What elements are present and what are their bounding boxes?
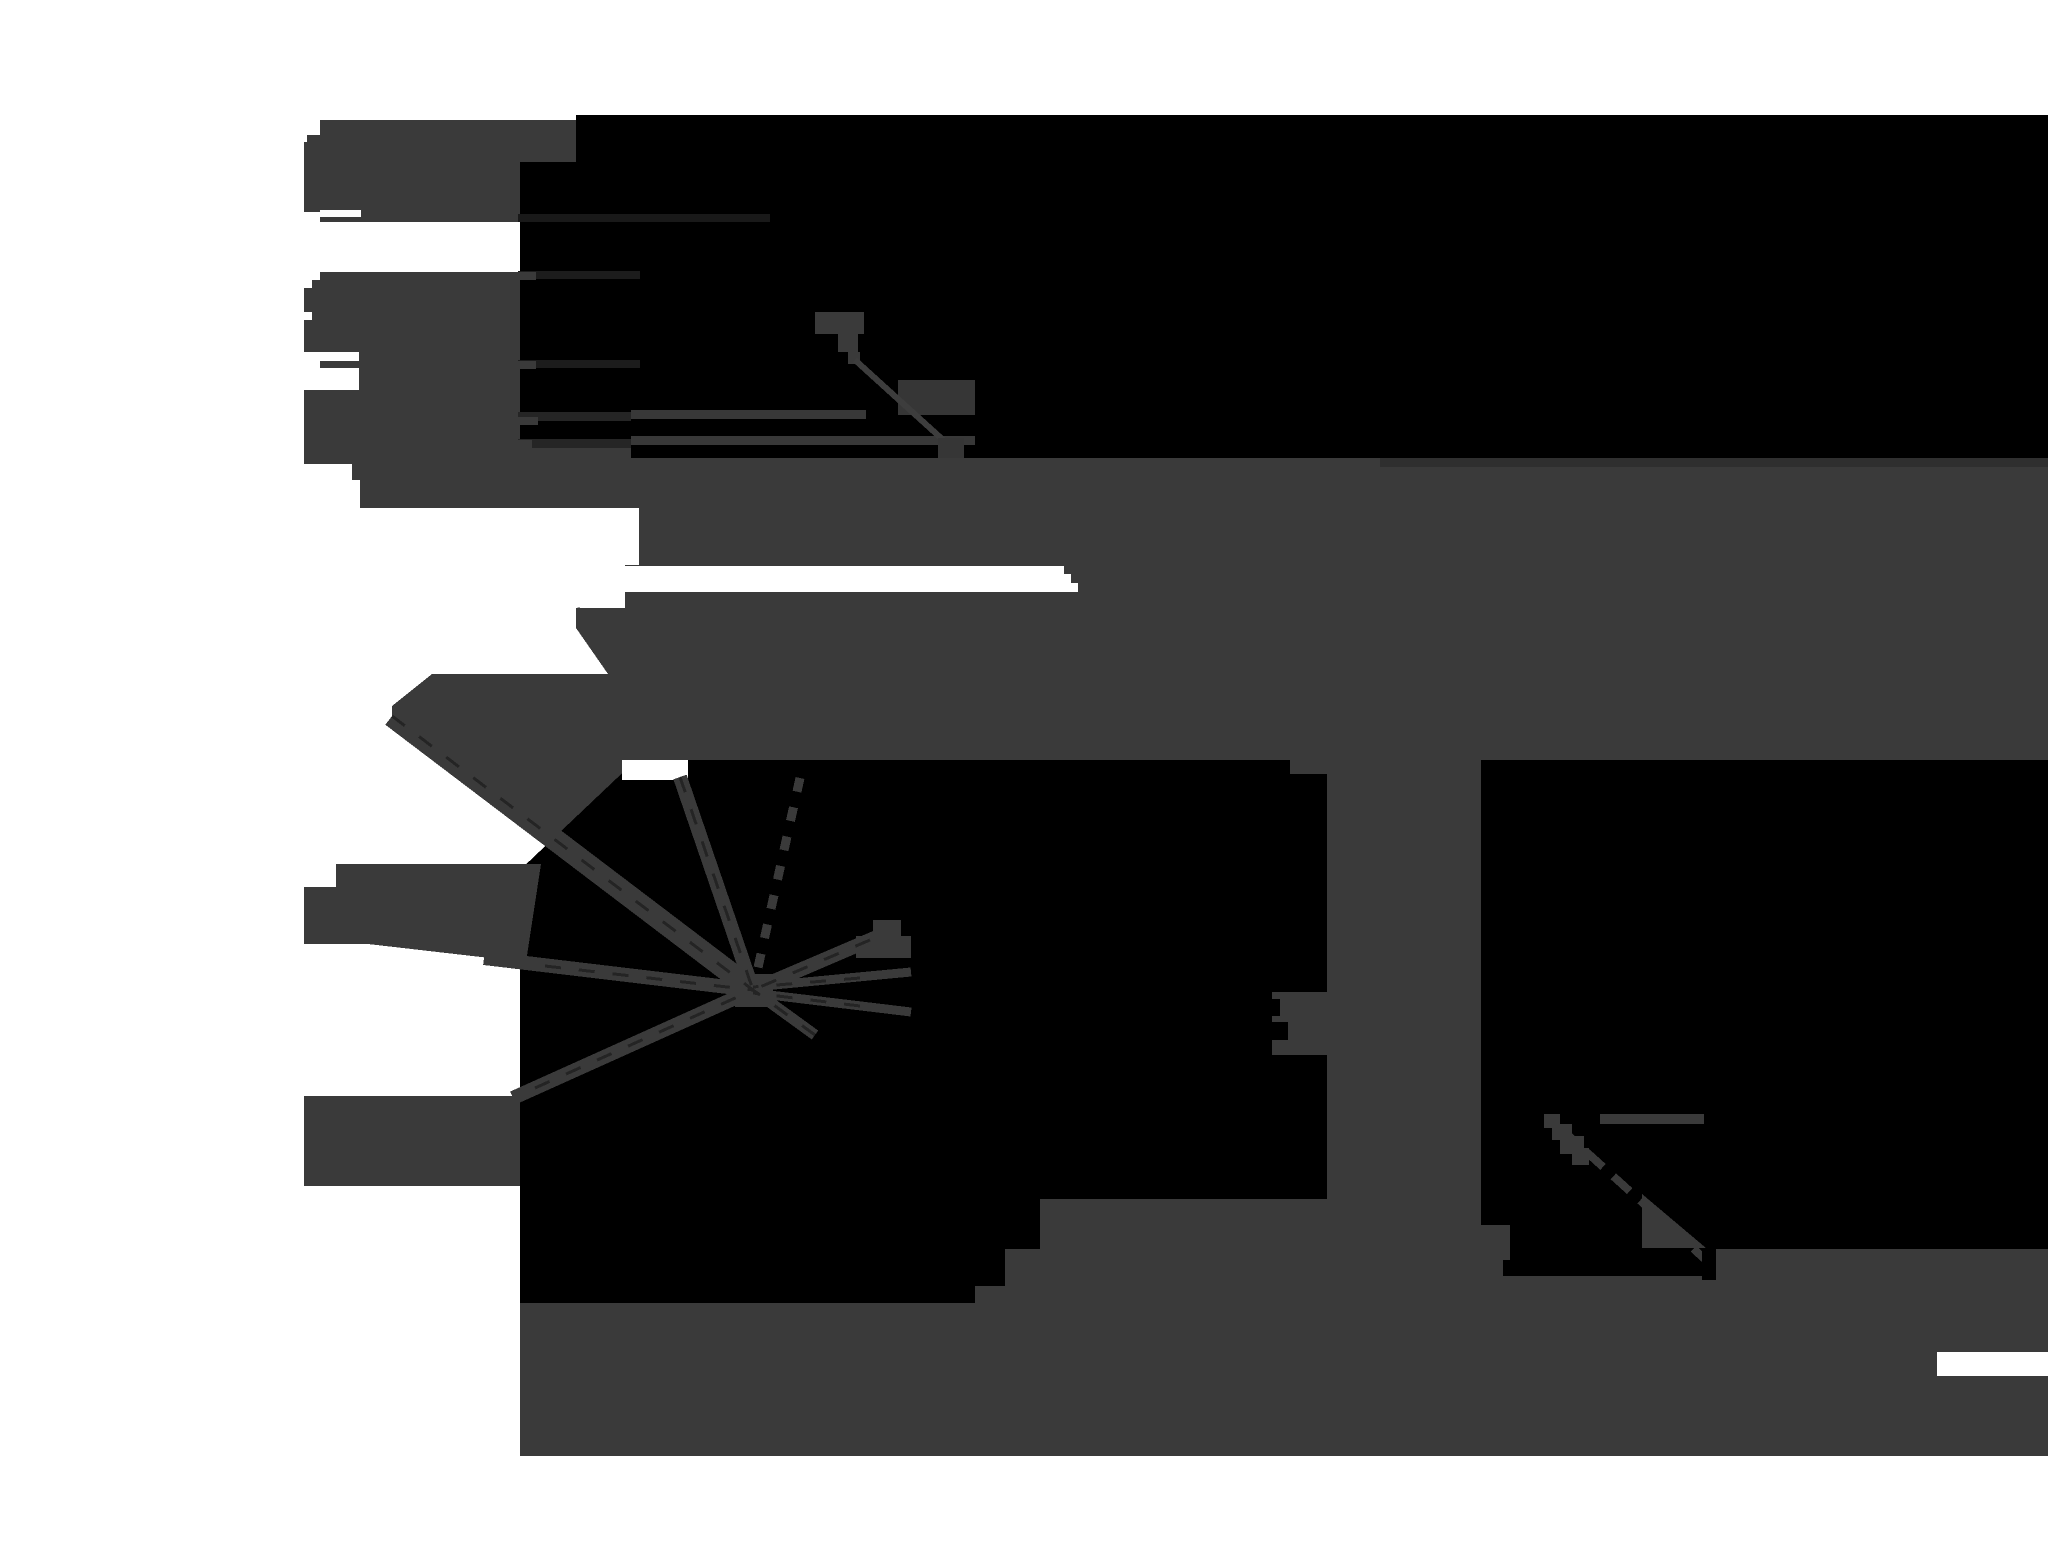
panel 2 (center black panel) bbox=[520, 760, 1327, 1303]
wire E lower ray bbox=[753, 993, 911, 1012]
arrow wedge (big left-pointing arrow mid) bbox=[392, 592, 625, 905]
panel3 arrow tip tick bbox=[1702, 1249, 1716, 1280]
wire NE ray bbox=[753, 928, 898, 990]
panel1 funnel mark bbox=[815, 312, 864, 364]
hub junction knot bbox=[735, 974, 773, 1007]
panel1 bottom darker row right bbox=[1380, 458, 2048, 467]
node C label blob (left-middle) bbox=[336, 864, 541, 962]
panel3 arrowhead NW bbox=[1544, 1114, 1589, 1165]
wire W ray bbox=[484, 958, 753, 990]
panel1 code line y218 bbox=[518, 214, 770, 222]
panel3 diagonal arrow bbox=[1560, 1128, 1708, 1262]
panel3 horizontal wire bbox=[1600, 1114, 1704, 1124]
wire gray band left segment under panel 1 bbox=[352, 447, 631, 508]
wire NNE dashes bbox=[753, 778, 800, 990]
white gap under band left of hub bbox=[622, 760, 688, 780]
wire NE end blocks bbox=[873, 920, 901, 936]
panel1 code line y275 bbox=[518, 271, 640, 279]
node D label blob (lower-left) bbox=[304, 1096, 520, 1186]
gray filler at panel2 corner step bbox=[1005, 1249, 1040, 1290]
wire NW ray bbox=[392, 716, 753, 990]
panel1 cap y272 bbox=[518, 272, 536, 280]
panel 1 (top black code panel) bbox=[520, 115, 2048, 458]
white carve: gap left of wedge bbox=[580, 508, 639, 565]
wire E upper ray bbox=[753, 972, 911, 987]
white carve: bottom band right notch bbox=[1937, 1352, 2048, 1376]
white carve: blob A notch bbox=[320, 210, 361, 217]
panel1 code line y363 bbox=[518, 360, 640, 368]
panel1 cap y361 bbox=[518, 361, 536, 369]
hub rays (converging arrows) bbox=[392, 716, 911, 1098]
gray filler under panel3 left notch bbox=[1481, 1225, 1510, 1260]
white carve: blob D notch bbox=[304, 1157, 328, 1170]
panel 3 (right black panel) bbox=[1481, 760, 2048, 1276]
panel1 wire L2 bbox=[518, 439, 631, 448]
panel1 wire L1 bbox=[518, 412, 631, 421]
node tick mark left of bar bbox=[1272, 992, 1328, 1055]
wire SE ray bbox=[753, 990, 815, 1035]
panel1 mid gray band bbox=[898, 380, 975, 415]
node A text blob (top-left paragraph) bbox=[304, 120, 584, 222]
wire NNW ray bbox=[680, 777, 753, 990]
ray dark cores bbox=[392, 716, 870, 1088]
white carve: slit in band bbox=[625, 566, 1064, 592]
white carve: blob B steps and slits bbox=[304, 272, 320, 280]
wire SW ray bbox=[513, 990, 753, 1098]
wire gray band main (full width under panel 1) bbox=[625, 402, 2048, 760]
panel1 cap y441 bbox=[518, 440, 532, 448]
panel1 diagonal arrow bbox=[855, 360, 952, 448]
bottom gray band bbox=[520, 1303, 2048, 1456]
node bar vertical (between panels) bbox=[1327, 759, 1481, 1456]
node B text blob (second paragraph) bbox=[304, 272, 520, 508]
panel1 cap y422 bbox=[518, 417, 538, 425]
panel3 gray triangle bbox=[1642, 1194, 1706, 1248]
